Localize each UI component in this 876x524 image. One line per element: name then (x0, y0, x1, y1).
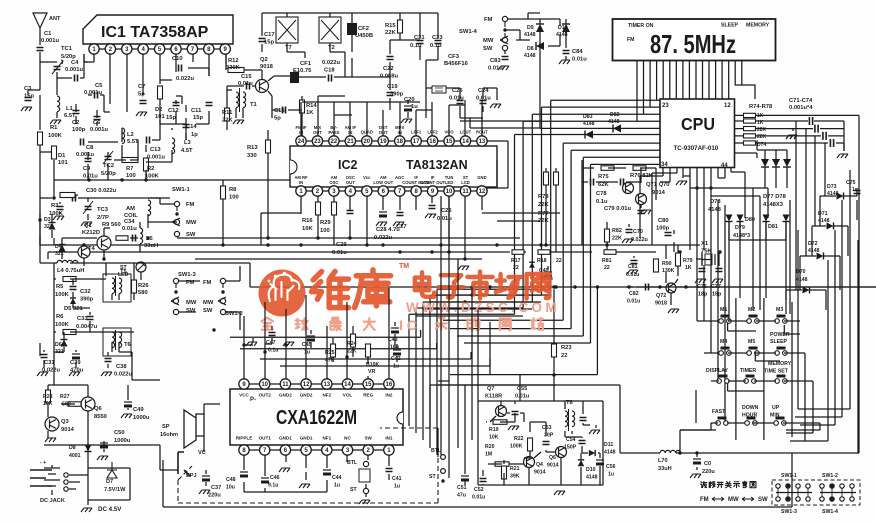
CXA pin 1 (384, 445, 394, 455)
wire (40, 95, 110, 130)
wire (160, 68, 209, 84)
svg-text:R2: R2 (147, 166, 154, 172)
svg-text:C0: C0 (704, 461, 711, 467)
wire (426, 60, 540, 128)
wire (52, 465, 130, 505)
capacitor C28 (379, 211, 387, 213)
junction dots (221, 243, 224, 246)
diode D71 (827, 223, 834, 230)
CXA pin 5 (301, 445, 311, 455)
svg-text:Q72: Q72 (656, 293, 666, 299)
capacitor C31 (41, 355, 48, 358)
svg-text:C83: C83 (490, 58, 501, 64)
svg-text:R21: R21 (510, 466, 520, 472)
svg-text:C13: C13 (150, 147, 161, 153)
inductor L70 (660, 450, 681, 453)
wire (244, 455, 389, 476)
svg-text:100K: 100K (510, 444, 523, 450)
IC2 pin 8 (411, 186, 421, 196)
svg-text:C9: C9 (83, 166, 91, 172)
IC2 pin 20 (362, 136, 372, 146)
CPU left staircase buses (515, 100, 661, 343)
svg-text:C52: C52 (474, 487, 484, 493)
transformer T5 (112, 278, 115, 294)
svg-text:C24: C24 (478, 88, 489, 94)
svg-text:22K: 22K (757, 127, 767, 133)
inductor L3 (172, 138, 175, 154)
svg-text:MEMORY: MEMORY (768, 361, 792, 367)
svg-text:C42: C42 (391, 356, 401, 362)
svg-text:C78: C78 (596, 191, 607, 197)
svg-text:FM: FM (700, 497, 709, 503)
svg-text:T2: T2 (328, 45, 335, 51)
ground (376, 222, 387, 226)
capacitor C83 (502, 57, 509, 60)
wire (226, 54, 262, 80)
IC2 pin 7 (395, 186, 405, 196)
ground (508, 426, 519, 430)
svg-text:0.01u: 0.01u (449, 96, 464, 102)
capacitor C75 (854, 191, 861, 194)
capacitor C41 (386, 469, 393, 472)
ground (458, 266, 469, 270)
svg-text:390p: 390p (390, 92, 404, 98)
resistor R77b (554, 172, 559, 185)
svg-text:580: 580 (138, 290, 148, 296)
svg-text:9014: 9014 (534, 470, 546, 476)
svg-text:TIME SET: TIME SET (764, 369, 789, 375)
svg-text:0.001u*4: 0.001u*4 (789, 105, 813, 111)
svg-text:FM: FM (627, 37, 635, 43)
capacitor C43 (391, 327, 399, 329)
svg-text:MEMORY: MEMORY (746, 23, 770, 29)
svg-text:0.022u: 0.022u (631, 237, 648, 243)
wire (40, 332, 160, 380)
IC2 pin 14 (460, 136, 470, 146)
svg-text:0.01u: 0.01u (83, 174, 98, 180)
switch block SW1 (772, 480, 860, 505)
svg-text:R1: R1 (50, 125, 58, 131)
resistor R3 (60, 193, 75, 198)
svg-text:1000u: 1000u (114, 438, 131, 444)
box around T5 (103, 274, 131, 302)
wire (40, 236, 57, 263)
CXA pin 11 (280, 379, 290, 389)
wire (52, 214, 140, 266)
svg-text:22K: 22K (757, 134, 767, 140)
svg-text:R29: R29 (320, 220, 331, 226)
svg-text:FAST: FAST (712, 409, 726, 415)
capacitor C20 (404, 105, 412, 107)
capacitor C22 (387, 57, 394, 60)
svg-text:MW: MW (203, 300, 214, 306)
svg-text:SP: SP (162, 424, 170, 430)
matrix wires (680, 222, 820, 440)
svg-text:- +: - + (40, 460, 46, 466)
ground (425, 214, 436, 218)
svg-text:18: 18 (396, 139, 403, 145)
svg-text:1u: 1u (608, 472, 614, 478)
svg-text:SW1-2: SW1-2 (822, 473, 838, 479)
svg-text:9014: 9014 (547, 463, 559, 469)
capacitor C29 (347, 211, 354, 214)
svg-text:15p: 15p (264, 40, 274, 46)
svg-text:321: 321 (44, 224, 53, 230)
svg-text:C70: C70 (633, 229, 643, 235)
wire (505, 13, 566, 128)
svg-text:D11: D11 (604, 442, 613, 448)
svg-text:0.01u: 0.01u (627, 299, 640, 305)
CXA pin 3 (342, 445, 352, 455)
resistor R15 (398, 20, 403, 33)
svg-text:220u: 220u (702, 469, 715, 475)
svg-text:K212D: K212D (82, 230, 100, 236)
trimmer TC3 (85, 207, 92, 210)
display bus wires (637, 61, 755, 121)
svg-text:TIMER: TIMER (740, 368, 756, 374)
dc jack (30, 470, 52, 486)
capacitor C14 (183, 125, 190, 128)
ground (199, 490, 210, 494)
svg-text:22K: 22K (222, 118, 233, 124)
svg-text:AM: AM (126, 206, 135, 212)
left vertical trunk (430, 385, 556, 457)
wire (54, 105, 330, 180)
svg-text:D82: D82 (610, 112, 620, 118)
diode D6 (61, 340, 68, 347)
svg-text:D10: D10 (558, 25, 568, 31)
svg-text:C4: C4 (71, 60, 79, 66)
capacitor C0 (693, 458, 701, 460)
svg-text:4148: 4148 (708, 207, 722, 213)
svg-text:R22: R22 (514, 436, 524, 442)
fan rails (230, 287, 597, 455)
svg-text:62K: 62K (598, 182, 609, 188)
svg-text:R27: R27 (60, 394, 70, 400)
svg-text:T7: T7 (285, 45, 292, 51)
watermark logo and text (259, 263, 561, 333)
box around T6 (103, 328, 131, 356)
svg-text:L3: L3 (184, 140, 192, 146)
svg-text:SW: SW (186, 232, 196, 238)
coil AM COIL (148, 200, 151, 216)
osc block wires (465, 375, 603, 485)
resistor R17 (512, 250, 524, 255)
resistor R81 (604, 250, 616, 255)
svg-text:BTL: BTL (431, 448, 442, 454)
ground (299, 484, 310, 488)
capacitor C13 (147, 137, 150, 144)
svg-text:C15: C15 (241, 74, 252, 80)
svg-text:MW: MW (728, 497, 739, 503)
svg-text:5.5T: 5.5T (127, 139, 139, 145)
svg-text:330: 330 (247, 153, 257, 159)
svg-text:SW1-4: SW1-4 (822, 509, 838, 515)
capacitor C40 (544, 271, 552, 273)
wire (40, 104, 97, 180)
diode D8 (536, 42, 544, 50)
svg-text:C5: C5 (95, 83, 103, 89)
svg-text:C17: C17 (264, 32, 275, 38)
svg-text:SLEEP: SLEEP (770, 339, 788, 345)
CXA pin 4 (322, 445, 332, 455)
svg-text:100: 100 (229, 195, 239, 201)
resistor R26 (132, 280, 137, 293)
inductor L1 (57, 96, 60, 112)
transformer T2 (319, 17, 341, 43)
svg-text:POWER: POWER (770, 332, 790, 338)
svg-text:10K: 10K (302, 226, 313, 232)
svg-text:SW: SW (483, 46, 493, 52)
ground (712, 279, 723, 283)
ground (21, 107, 32, 111)
svg-text:22K: 22K (347, 349, 357, 355)
diode D79 (737, 215, 744, 222)
svg-text:22: 22 (556, 258, 562, 264)
wire (268, 76, 302, 136)
svg-text:33uH: 33uH (658, 466, 672, 472)
capacitor C55 (512, 412, 519, 415)
capacitor C77 (716, 269, 723, 272)
svg-text:CF3: CF3 (448, 54, 460, 60)
IC1 pin 9 (220, 44, 230, 54)
svg-text:K118R: K118R (485, 394, 502, 400)
svg-text:R20: R20 (485, 444, 495, 450)
diode D2 (158, 86, 163, 99)
ground (589, 430, 600, 434)
resistor R75 (744, 119, 756, 123)
ground (676, 181, 687, 185)
capacitor C51 (461, 475, 469, 477)
display LCD panel (613, 19, 776, 61)
svg-text:1K: 1K (757, 120, 764, 126)
svg-text:SW: SW (203, 308, 213, 314)
svg-text:22: 22 (331, 139, 338, 145)
svg-text:CPU: CPU (681, 114, 715, 134)
svg-text:DC JACK: DC JACK (40, 498, 65, 504)
resistor R2 (144, 158, 149, 171)
svg-text:C25: C25 (452, 88, 463, 94)
svg-text:15p: 15p (166, 115, 176, 121)
CXA pin rails (244, 384, 389, 450)
IC1 pin 6 (171, 44, 181, 54)
svg-text:ANT: ANT (49, 16, 61, 22)
CXA pin 12 (301, 379, 311, 389)
IC2 top pin wires (301, 96, 540, 136)
resistor R27 (68, 402, 82, 407)
diode D8b (85, 445, 92, 452)
svg-text:Q3: Q3 (61, 419, 70, 425)
svg-text:14: 14 (462, 139, 469, 145)
svg-text:I C: I C (399, 317, 417, 333)
resistor R23 (552, 344, 557, 357)
bottom border wire (163, 453, 792, 507)
svg-text:D7: D7 (106, 479, 113, 485)
IC1 pin 3 (122, 44, 132, 54)
svg-text:D3: D3 (44, 217, 51, 223)
svg-text:Q2: Q2 (260, 57, 268, 63)
switch SW1 group 1 (776, 484, 780, 488)
resistor R1 (38, 132, 43, 145)
svg-text:4148: 4148 (524, 32, 536, 38)
capacitor C26 (429, 206, 436, 209)
svg-text:C79 0.01u: C79 0.01u (604, 206, 632, 212)
svg-text:EPJ: EPJ (186, 473, 197, 479)
svg-text:10u: 10u (226, 485, 235, 491)
svg-text:FM: FM (203, 280, 212, 286)
capacitor C53 (543, 442, 550, 445)
ground (81, 222, 92, 226)
wire (160, 96, 209, 140)
svg-text:C38: C38 (116, 364, 127, 370)
svg-text:MW: MW (483, 38, 494, 44)
svg-text:0.1u: 0.1u (596, 199, 608, 205)
ground (690, 474, 701, 478)
svg-text:T1: T1 (250, 102, 258, 108)
IC2 pin 11 (460, 186, 470, 196)
svg-text:19: 19 (380, 139, 387, 145)
svg-text:0.01u: 0.01u (122, 226, 137, 232)
svg-text:FM: FM (484, 17, 493, 23)
IC2 pin 9 (427, 186, 437, 196)
capacitor C18 (329, 75, 332, 82)
svg-text:C44: C44 (332, 475, 342, 481)
svg-text:0.01u: 0.01u (572, 57, 587, 63)
resistor R5 (63, 277, 76, 282)
transistor Q71 (623, 183, 634, 194)
diode D10 (562, 24, 570, 32)
svg-text:4001: 4001 (69, 453, 81, 459)
ground (233, 120, 244, 124)
capacitor C74 (830, 139, 833, 147)
CXA pin 10 (260, 379, 270, 389)
IC2 pin 4 (345, 186, 355, 196)
svg-text:REG: REG (363, 393, 373, 398)
capacitor C70 (626, 230, 633, 233)
svg-text:LED: LED (445, 180, 453, 185)
svg-text:4.5T: 4.5T (181, 148, 193, 154)
svg-text:39K: 39K (510, 474, 520, 480)
wire (299, 13, 438, 118)
svg-text:1u: 1u (334, 483, 340, 489)
capacitor C47 (269, 333, 276, 336)
svg-text:B456F16: B456F16 (444, 61, 469, 67)
capacitor C84 (563, 51, 570, 54)
svg-text:R26: R26 (138, 283, 149, 289)
capacitor C71 (809, 117, 812, 125)
svg-text:100K: 100K (55, 322, 70, 328)
svg-text:CF2: CF2 (358, 26, 369, 32)
wire (261, 130, 301, 245)
svg-text:SLEEP: SLEEP (721, 23, 739, 29)
crystal X1 (705, 254, 712, 265)
ground (622, 239, 633, 243)
svg-text:DISPLAY: DISPLAY (706, 368, 729, 374)
svg-text:C11: C11 (191, 108, 202, 114)
IC2 pin 19 (378, 136, 388, 146)
svg-text:18p: 18p (712, 292, 722, 298)
svg-text:11: 11 (462, 189, 469, 195)
wire (729, 178, 798, 409)
svg-text:C80: C80 (658, 218, 669, 224)
svg-text:TC1: TC1 (61, 46, 73, 52)
svg-text:47u: 47u (457, 493, 466, 499)
svg-text:4148: 4148 (808, 248, 820, 254)
transistor Q7 (496, 406, 507, 417)
ground (498, 66, 509, 70)
svg-text:22: 22 (513, 265, 519, 271)
diode D82 inline (613, 124, 621, 132)
svg-text:R5: R5 (56, 284, 64, 290)
resistor R90 (654, 259, 659, 272)
resistor R25 (331, 344, 336, 357)
svg-text:ST: ST (350, 487, 357, 493)
svg-text:1u: 1u (304, 350, 310, 356)
wire (262, 13, 438, 77)
capacitor C38 (105, 359, 112, 362)
svg-text:R90: R90 (662, 261, 672, 267)
ground (69, 372, 80, 376)
resistor R22 (528, 438, 533, 451)
svg-text:100K: 100K (55, 292, 70, 298)
IC1 pin 4 (138, 44, 148, 54)
capacitor C50 (100, 442, 108, 444)
svg-text:13: 13 (323, 382, 330, 388)
svg-text:1p: 1p (191, 132, 198, 138)
diode D74 row (761, 159, 769, 167)
svg-text:16ohm: 16ohm (160, 432, 178, 438)
svg-text:GND2: GND2 (300, 393, 313, 398)
svg-text:TC3: TC3 (97, 207, 109, 213)
svg-text:R9 560: R9 560 (102, 222, 121, 228)
diode D11 (589, 450, 595, 456)
svg-text:220u: 220u (208, 493, 221, 499)
capacitor C56 (596, 459, 604, 461)
svg-text:R76 82K: R76 82K (630, 173, 654, 179)
resistor R76 (744, 127, 756, 131)
svg-text:CF1: CF1 (300, 61, 312, 67)
svg-text:R18: R18 (537, 258, 547, 264)
CXA pin 7 (260, 445, 270, 455)
svg-text:1u: 1u (393, 364, 399, 370)
svg-text:M1: M1 (720, 307, 727, 313)
if-ic IC2 TA8132AN box (290, 146, 497, 187)
ground (640, 210, 651, 214)
capacitor C76 (699, 269, 706, 272)
ground (359, 500, 370, 504)
wire (179, 266, 240, 330)
wire (40, 180, 170, 245)
microcontroller CPU TC-9307AF-010 (660, 99, 735, 168)
capacitor C15 (247, 83, 250, 90)
svg-text:L4 0.75uH: L4 0.75uH (57, 268, 84, 274)
svg-text:C50: C50 (114, 430, 125, 436)
svg-text:R19: R19 (489, 427, 499, 433)
svg-text:C47: C47 (266, 340, 276, 346)
svg-text:2/7P: 2/7P (97, 215, 109, 221)
IC2 pin 21 (345, 136, 355, 146)
svg-text:0.001u: 0.001u (90, 127, 109, 133)
capacitor C81 (631, 261, 638, 264)
svg-text:D77 D78: D77 D78 (763, 194, 787, 200)
svg-text:Q1: Q1 (84, 223, 93, 229)
resistor R78 (744, 141, 756, 145)
svg-text:GND1: GND1 (279, 436, 292, 441)
svg-text:C37: C37 (211, 485, 221, 491)
wire (160, 404, 220, 486)
op-amp IC1 TA7358AP box (83, 15, 233, 44)
transformer T6a (112, 332, 115, 348)
